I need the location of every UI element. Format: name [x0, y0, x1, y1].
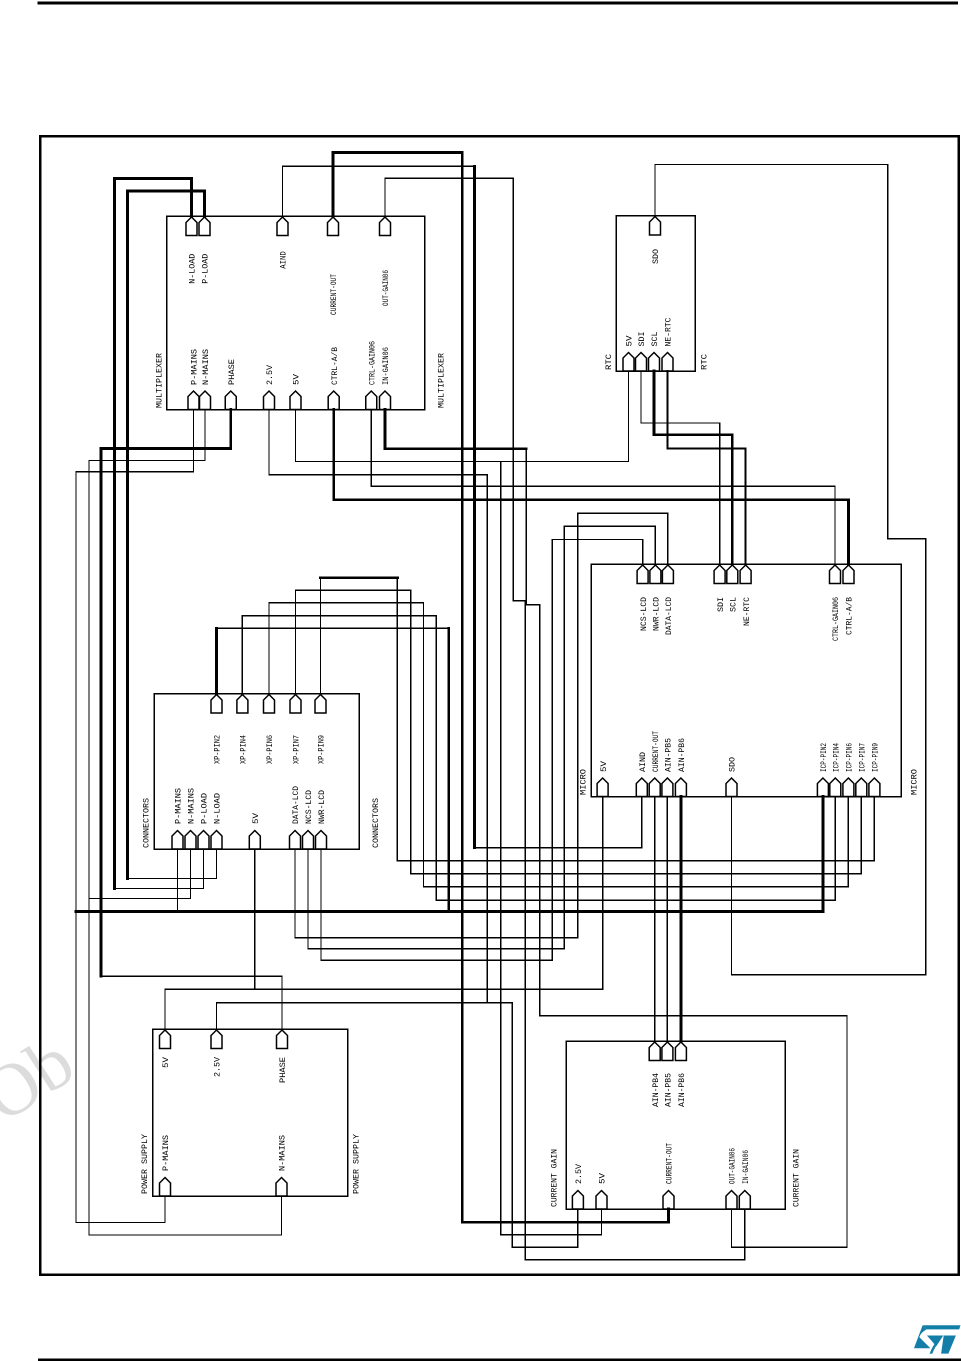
pin AIN-PB4 CG-top: [649, 1042, 660, 1061]
pin XP-PIN4 CONN-top: [237, 695, 248, 714]
svg-text:ICP-PIN4: ICP-PIN4: [832, 743, 842, 772]
svg-text:AIN-PB6: AIN-PB6: [677, 1073, 687, 1107]
pin NE-RTC RTC-bottom: [662, 353, 673, 372]
wire XP-PIN9 horizontal thick: [321, 576, 398, 579]
pin AIND MICRO-bottom: [636, 778, 647, 797]
svg-text:P-MAINS: P-MAINS: [190, 349, 200, 385]
pin XP-PIN6 CONN-top: [264, 695, 275, 714]
pin AIN-PB5 MICRO-bottom: [662, 778, 673, 797]
wire N-LOAD net MUX-top to x114 bus: [114, 179, 191, 889]
svg-text:P-LOAD: P-LOAD: [201, 254, 211, 284]
pin PHASE PS-top: [277, 1030, 288, 1049]
svg-text:NE-RTC: NE-RTC: [664, 318, 674, 347]
svg-text:N-MAINS: N-MAINS: [187, 788, 197, 824]
block RTC: [616, 216, 695, 372]
wire AIND vertical bus x474 thick: [473, 166, 476, 848]
svg-text:IN-GAIN06: IN-GAIN06: [381, 347, 391, 385]
pin N-LOAD CONN-bottom: [211, 831, 222, 850]
ST logo: [914, 1325, 961, 1354]
pin XP-PIN7 CONN-top: [290, 695, 301, 714]
wire to CONN P-LOAD pin: [114, 849, 203, 889]
wire IN-GAIN06 net thick part: [385, 410, 526, 449]
svg-text:MICRO: MICRO: [910, 769, 920, 795]
wire XP-PIN2 stub: [215, 628, 218, 693]
wire 5V stub PS: [164, 989, 166, 1029]
svg-text:CURRENT-OUT: CURRENT-OUT: [651, 731, 661, 772]
svg-text:SCL: SCL: [650, 332, 660, 347]
pin P-MAINS MUX-bottom: [188, 391, 199, 410]
wire PHASE to PS PHASE pin: [101, 976, 282, 1029]
svg-text:CURRENT GAIN: CURRENT GAIN: [792, 1149, 802, 1207]
svg-text:CURRENT-OUT: CURRENT-OUT: [329, 274, 339, 315]
svg-text:AIN-PB5: AIN-PB5: [664, 738, 674, 772]
svg-text:NCS-LCD: NCS-LCD: [639, 597, 649, 631]
svg-text:AIN-PB4: AIN-PB4: [651, 1073, 661, 1107]
svg-text:SDO: SDO: [651, 249, 661, 264]
pin 5V CG-bottom: [596, 1191, 607, 1210]
pin N-MAINS PS-bottom: [276, 1178, 287, 1197]
pin N-LOAD MUX-top: [186, 217, 197, 236]
svg-text:N-LOAD: N-LOAD: [188, 254, 198, 284]
svg-text:SDI: SDI: [716, 597, 726, 612]
svg-text:PHASE: PHASE: [227, 359, 237, 385]
svg-text:XP-PIN7: XP-PIN7: [292, 735, 302, 764]
svg-text:MULTIPLEXER: MULTIPLEXER: [155, 353, 165, 408]
pin CTRL-GAIN06 MUX-bottom: [366, 391, 377, 410]
top rule: [38, 2, 959, 5]
pin OUT-GAIN06 CG-bottom: [726, 1191, 737, 1210]
wire 2.5V net MUX to lower rail: [269, 410, 487, 1003]
wire XP-PIN7 to ICP-PIN7: [296, 590, 862, 874]
pin 5V RTC-bottom: [623, 353, 634, 372]
pin NWR-LCD CONN-bottom: [316, 831, 327, 850]
wire PHASE net thick part: [101, 410, 231, 977]
pin AIN-PB6 CG-top: [675, 1042, 686, 1061]
wire NWR-LCD net CONN to MICRO: [321, 540, 643, 961]
wire XP-PIN2 vertical x448: [447, 628, 450, 911]
svg-text:ICP-PIN2: ICP-PIN2: [819, 743, 829, 772]
pin 5V PS-top: [160, 1030, 171, 1049]
wire 2.5V stub to PS: [216, 1003, 218, 1029]
pin CTRL-GAIN06 MICRO-top: [830, 565, 841, 584]
wire P-LOAD net MUX-top to x127 bus: [128, 191, 205, 879]
pin CURRENT-OUT CG-bottom: [663, 1191, 674, 1210]
svg-text:AIND: AIND: [638, 752, 648, 772]
svg-text:RTC: RTC: [604, 354, 614, 370]
svg-text:XP-PIN2: XP-PIN2: [213, 735, 223, 764]
pin IN-GAIN06 MUX-bottom: [380, 391, 391, 410]
pin 2.5V MUX-bottom: [264, 391, 275, 410]
wire 5V rail MUX to RTC: [296, 371, 629, 462]
pin SCL MICRO-top: [727, 565, 738, 584]
bottom rule: [38, 1358, 961, 1361]
block POWER SUPPLY: [153, 1029, 348, 1196]
pin SCL RTC-bottom: [649, 353, 660, 372]
pin P-LOAD CONN-bottom: [198, 831, 209, 850]
wire CONN N-MAINS branch: [89, 849, 191, 899]
pin AIN-PB5 CG-top: [662, 1042, 673, 1061]
svg-text:CTRL-A/B: CTRL-A/B: [845, 597, 855, 635]
svg-text:CTRL-GAIN06: CTRL-GAIN06: [367, 341, 377, 385]
wire XP-PIN9 stub: [320, 578, 322, 694]
svg-text:NCS-LCD: NCS-LCD: [304, 790, 314, 824]
pin NWR-LCD MICRO-top: [650, 565, 661, 584]
pin XP-PIN2 CONN-top: [211, 695, 222, 714]
wire ICP-PIN2 stub: [822, 797, 825, 912]
pin P-MAINS PS-bottom: [160, 1178, 171, 1197]
wire DATA-LCD net CONN to MICRO: [295, 513, 668, 938]
wire MICRO 5V stub: [602, 797, 604, 990]
wire CONN P-MAINS stub to mains bus: [177, 849, 179, 912]
pin CTRL-A/B MICRO-top: [843, 565, 854, 584]
svg-text:PHASE: PHASE: [278, 1057, 288, 1083]
wire 2.5V to CG 2.5V: [512, 1003, 578, 1247]
block MULTIPLEXER: [167, 216, 425, 410]
pin 2.5V PS-top: [211, 1030, 222, 1049]
svg-text:DATA-LCD: DATA-LCD: [664, 597, 674, 635]
svg-text:CONNECTORS: CONNECTORS: [142, 798, 152, 848]
svg-text:POWER SUPPLY: POWER SUPPLY: [140, 1134, 150, 1194]
svg-text:2.5V: 2.5V: [265, 364, 275, 385]
svg-text:NWR-LCD: NWR-LCD: [652, 597, 662, 631]
svg-text:CTRL-GAIN06: CTRL-GAIN06: [831, 597, 841, 641]
svg-text:2.5V: 2.5V: [213, 1056, 223, 1077]
block CONNECTORS: [154, 694, 359, 850]
pin NCS-LCD MICRO-top: [637, 565, 648, 584]
svg-text:5V: 5V: [161, 1056, 171, 1068]
svg-text:DATA-LCD: DATA-LCD: [291, 786, 301, 824]
svg-text:ICP-PIN9: ICP-PIN9: [871, 743, 881, 772]
wire 5V lower rail: [165, 988, 603, 990]
pin DATA-LCD CONN-bottom: [290, 831, 301, 850]
pin P-MAINS CONN-bottom: [172, 831, 183, 850]
pin CURRENT-OUT MUX-top: [328, 217, 339, 236]
wire SDI net RTC to MICRO: [641, 371, 720, 564]
svg-text:5V: 5V: [292, 373, 302, 385]
pin SDI MICRO-top: [714, 565, 725, 584]
pin SDO RTC-top: [650, 217, 661, 236]
svg-text:SDO: SDO: [728, 757, 738, 772]
wire XP-PIN2 horizontal: [217, 627, 449, 629]
svg-text:5V: 5V: [251, 812, 261, 824]
pin PHASE MUX-bottom: [225, 391, 236, 410]
pin ICP-PIN9 MICRO-bottom: [869, 778, 880, 797]
svg-text:IN-GAIN06: IN-GAIN06: [741, 1150, 751, 1184]
wire MICRO CURRENT-OUT to CG AIN-PB4: [654, 797, 656, 1042]
wire to CONN N-LOAD pin: [128, 849, 217, 879]
wire mains/ICP-PIN2 thick horizontal y911: [76, 910, 823, 913]
pin 5V MICRO-bottom: [597, 778, 608, 797]
pin ICP-PIN4 MICRO-bottom: [830, 778, 841, 797]
block CURRENT GAIN: [566, 1041, 785, 1209]
wire SDO net RTC to MICRO with jog: [655, 165, 926, 975]
wire MICRO AIN-PB6 to CG AIN-PB6 thick: [680, 797, 683, 1042]
wire 2.5V lower rail: [217, 1002, 513, 1004]
svg-text:POWER SUPPLY: POWER SUPPLY: [352, 1134, 362, 1194]
svg-text:ICP-PIN7: ICP-PIN7: [858, 743, 868, 772]
svg-text:ICP-PIN6: ICP-PIN6: [845, 743, 855, 772]
wire CURRENT-OUT net MUX-top to CG via x462 bus: [333, 152, 669, 1222]
svg-text:NE-RTC: NE-RTC: [742, 597, 752, 626]
svg-text:OUT-GAIN06: OUT-GAIN06: [381, 270, 391, 306]
pin CTRL-A/B MUX-bottom: [328, 391, 339, 410]
svg-text:AIN-PB5: AIN-PB5: [664, 1073, 674, 1107]
svg-text:XP-PIN9: XP-PIN9: [317, 735, 327, 764]
wire XP-PIN6 to ICP-PIN6: [269, 603, 848, 887]
wire XP-PIN4 to ICP-PIN4: [242, 616, 835, 901]
svg-text:N-LOAD: N-LOAD: [213, 793, 223, 824]
wire CTRL-GAIN06 net MUX to MICRO: [371, 410, 835, 565]
wire CONN 5V stub: [254, 849, 256, 989]
pin IN-GAIN06 CG-bottom: [739, 1191, 750, 1210]
svg-text:AIND: AIND: [279, 251, 289, 269]
wire IN-GAIN06 net to CG OUT-GAIN06 with jog: [526, 449, 847, 1248]
pin 5V MUX-bottom: [290, 391, 301, 410]
pin N-MAINS CONN-bottom: [185, 831, 196, 850]
svg-text:SCL: SCL: [729, 597, 739, 612]
pin OUT-GAIN06 MUX-top: [380, 217, 391, 236]
pin NCS-LCD CONN-bottom: [303, 831, 314, 850]
wire P-MAINS net: MUX to PS via left bus x76: [76, 410, 194, 1223]
svg-text:N-MAINS: N-MAINS: [201, 349, 211, 385]
wire CTRL-A/B net MUX to MICRO: [334, 410, 849, 565]
pin CURRENT-OUT MICRO-bottom: [649, 778, 660, 797]
pin AIN-PB6 MICRO-bottom: [675, 778, 686, 797]
svg-text:2.5V: 2.5V: [574, 1163, 584, 1184]
wire NCS-LCD net CONN to MICRO: [308, 526, 655, 949]
wire SCL net RTC to MICRO: [654, 371, 732, 564]
svg-text:AIN-PB6: AIN-PB6: [677, 738, 687, 772]
wire NE-RTC net RTC to MICRO: [668, 371, 746, 564]
pin ICP-PIN2 MICRO-bottom: [817, 778, 828, 797]
wire XP-PIN9 to ICP-PIN9: [397, 578, 874, 861]
svg-text:CURRENT-OUT: CURRENT-OUT: [665, 1143, 675, 1184]
wire OUT-GAIN06 net MUX-top to CG IN-GAIN06 with jog: [385, 178, 745, 1260]
pin DATA-LCD MICRO-top: [662, 565, 673, 584]
wire MICRO AIN-PB5 to CG AIN-PB5: [666, 797, 668, 1042]
svg-text:P-MAINS: P-MAINS: [161, 1135, 171, 1171]
svg-text:5V: 5V: [625, 335, 635, 347]
wire AIND net MUX-top horizontal: [283, 166, 475, 216]
pin XP-PIN9 CONN-top: [315, 695, 326, 714]
svg-text:CURRENT GAIN: CURRENT GAIN: [550, 1149, 560, 1207]
wire AIND to MICRO AIND pin: [474, 797, 641, 848]
svg-text:OUT-GAIN06: OUT-GAIN06: [728, 1148, 738, 1184]
svg-text:XP-PIN4: XP-PIN4: [239, 735, 249, 764]
svg-text:MULTIPLEXER: MULTIPLEXER: [437, 353, 447, 408]
svg-text:5V: 5V: [599, 760, 609, 772]
svg-text:XP-PIN6: XP-PIN6: [265, 735, 275, 764]
svg-text:CTRL-A/B: CTRL-A/B: [330, 347, 340, 385]
svg-text:5V: 5V: [598, 1172, 608, 1184]
wire 5V branch down to CG 5V: [501, 462, 602, 1235]
pin ICP-PIN6 MICRO-bottom: [843, 778, 854, 797]
pin 5V CONN-bottom: [249, 831, 260, 850]
pin SDI RTC-bottom: [636, 353, 647, 372]
pin NE-RTC MICRO-top: [740, 565, 751, 584]
svg-text:NWR-LCD: NWR-LCD: [317, 790, 327, 824]
pin AIND MUX-top: [277, 217, 288, 236]
svg-text:SDI: SDI: [637, 332, 647, 347]
pin 2.5V CG-bottom: [572, 1191, 583, 1210]
svg-text:N-MAINS: N-MAINS: [278, 1135, 288, 1171]
svg-text:P-MAINS: P-MAINS: [174, 788, 184, 824]
svg-text:CONNECTORS: CONNECTORS: [371, 798, 381, 848]
svg-text:RTC: RTC: [700, 354, 710, 370]
svg-text:P-LOAD: P-LOAD: [200, 793, 210, 824]
block MICRO: [591, 564, 901, 797]
wire N-MAINS net: MUX to PS via left bus x89: [89, 410, 282, 1236]
pin N-MAINS MUX-bottom: [200, 391, 211, 410]
pin SDO MICRO-bottom: [726, 778, 737, 797]
pin P-LOAD MUX-top: [199, 217, 210, 236]
pin ICP-PIN7 MICRO-bottom: [856, 778, 867, 797]
svg-text:MICRO: MICRO: [579, 769, 589, 795]
